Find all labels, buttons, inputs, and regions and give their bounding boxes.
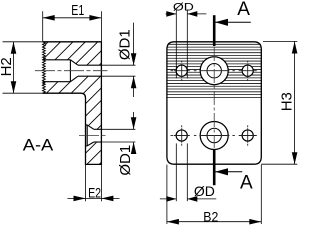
hatching of section: [0, 30, 234, 170]
dimension H2: [3, 41, 43, 43]
centerline vertical small holes top row: [181, 61, 183, 63]
svg-text:ØD: ØD: [173, 2, 194, 14]
dimension &#216;D1 top hole: [101, 64, 135, 66]
dimension H3: [263, 41, 297, 43]
svg-text:ØD1: ØD1: [116, 29, 133, 60]
bracket outline (section): [43, 42, 102, 165]
centerline top hole: [35, 70, 108, 72]
section arrow top: [215, 21, 251, 23]
svg-text:H3: H3: [279, 92, 296, 111]
centerline vertical small holes bottom row: [181, 125, 183, 127]
large hole bottom row: [200, 122, 228, 150]
svg-text:ØD: ØD: [194, 183, 215, 199]
countersunk hole top (section): [43, 59, 71, 61]
svg-text:B2: B2: [203, 209, 218, 225]
countersunk hole bottom (section): [86, 124, 88, 126]
svg-text:E2: E2: [88, 184, 101, 200]
dimension &#216;D bottom: [175, 143, 177, 201]
svg-text:E1: E1: [71, 2, 84, 19]
section arrow bottom: [215, 171, 242, 173]
small hole left top row: [176, 65, 187, 76]
centerline vertical through large holes: [213, 47, 215, 148]
svg-text:ØD1: ØD1: [117, 145, 134, 176]
cutting plane line A (bottom): [213, 149, 216, 185]
centerline bottom hole: [79, 135, 108, 137]
centerline horizontal top row: [171, 70, 174, 72]
cutting plane line A (top): [213, 15, 216, 46]
dimension &#216;D top: [175, 10, 177, 79]
dimension &#216;D1 bottom hole: [101, 128, 135, 130]
small hole right top row: [242, 65, 253, 76]
svg-text:A: A: [240, 173, 253, 194]
plate outline: [167, 42, 261, 164]
dimension E2: [85, 165, 87, 201]
small hole left bottom row: [176, 130, 187, 141]
centerline horizontal bottom row: [171, 135, 174, 137]
serrated clamping face (zigzag): [43, 42, 46, 93]
svg-text:A: A: [237, 0, 250, 20]
large hole top row: [200, 57, 228, 85]
svg-text:H2: H2: [0, 57, 15, 76]
dimension B2: [166, 165, 168, 224]
serration lines on clamping face: [166, 44, 262, 97]
svg-text:A-A: A-A: [23, 136, 54, 155]
dimension E1: [42, 11, 44, 41]
small hole right bottom row: [242, 130, 253, 141]
